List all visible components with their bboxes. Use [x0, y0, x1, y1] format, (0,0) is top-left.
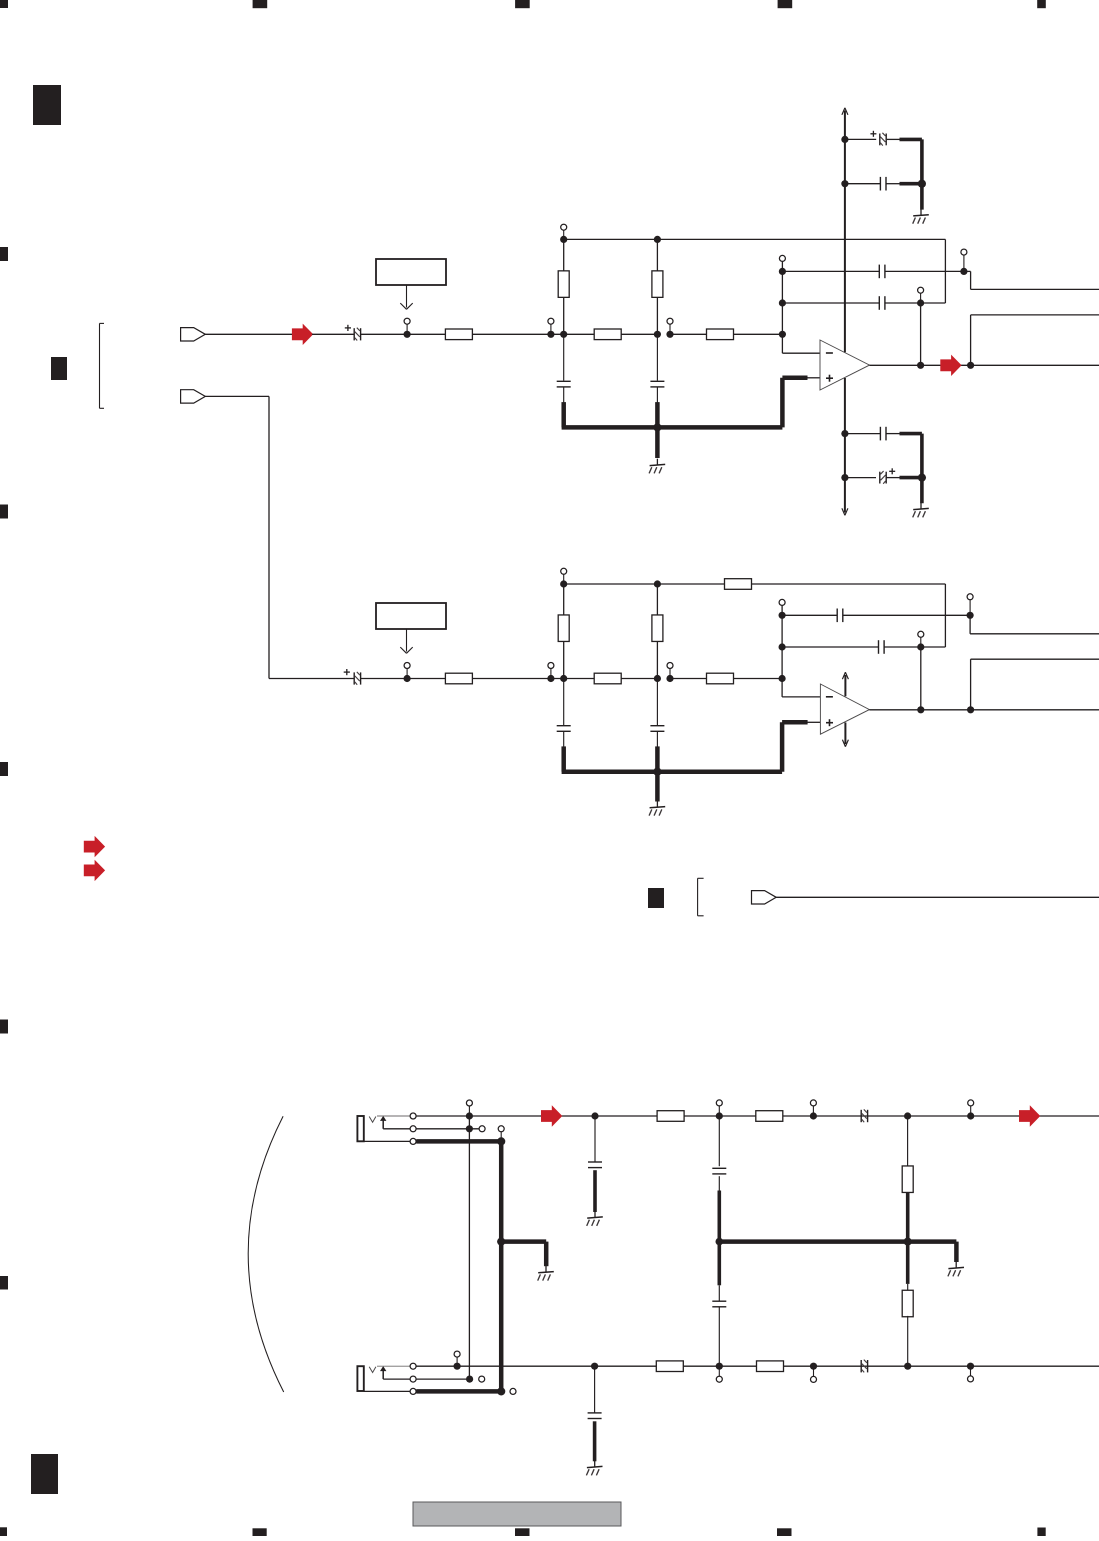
test point [970, 1106, 972, 1116]
op-amp IC1a [820, 340, 870, 390]
J1 ring wire (row 2) [383, 1128, 479, 1130]
capacitor C5 (supply) [845, 183, 881, 185]
thick branch to ground [501, 1239, 546, 1244]
capacitor C4 (supply, electrolytic) [845, 138, 876, 140]
feedback right drop wire stage 2 [944, 584, 946, 647]
node C column [781, 261, 783, 334]
wire R1 to node A [472, 333, 563, 335]
node D junction [547, 675, 554, 682]
registration mark bottom-1 [0, 1527, 7, 1536]
cable brace arc [248, 1116, 284, 1392]
capacitor C9 (feedback row 2) [782, 302, 879, 304]
capacitor C6 (supply) [845, 433, 881, 435]
capacitor C15 (feedback row 2) [782, 646, 878, 648]
junction [967, 1363, 974, 1370]
bead L2 (polarized) [860, 1360, 862, 1372]
resistor R12 [594, 673, 621, 684]
test point TP6 [963, 255, 965, 271]
test point TP3 [669, 324, 671, 334]
resistor R14 (shunt node D) [563, 584, 565, 679]
node F column [781, 605, 783, 678]
capacitor C21 (to ground) [594, 1116, 596, 1162]
connector CN1 pin 1 [181, 328, 206, 341]
test point TP7 [920, 293, 922, 303]
test point TP12 [550, 669, 552, 679]
wire arrow to C1 [312, 333, 354, 335]
bus junction stage 2 [653, 768, 661, 776]
capacitor C14 (feedback row 1) [782, 614, 837, 616]
registration mark top-1 [253, 0, 268, 8]
section index block [51, 357, 67, 380]
junction [810, 1112, 817, 1119]
ground G21 [594, 1211, 596, 1217]
junction [591, 1363, 598, 1370]
J2 ring wire (row 2) [383, 1378, 466, 1380]
signal-flow arrow (red) bottom-in [541, 1105, 562, 1126]
wire node B to node C (resistor R3) [670, 333, 782, 335]
wire CN2 to right edge [776, 896, 1099, 898]
junction [591, 1112, 598, 1119]
registration mark left-3 [0, 762, 8, 776]
output wire 4 (to right edge) [970, 659, 972, 710]
resistor R21 [657, 1111, 684, 1122]
resistor R3 [707, 329, 734, 340]
terminal circle [410, 1363, 416, 1369]
analog ground bus (thick) [717, 1239, 956, 1244]
wire node D to node E (resistor R12) [564, 678, 658, 680]
signal-flow arrow (red) bottom-out [1019, 1105, 1040, 1126]
node F row2 junction [779, 643, 786, 650]
ground G23 [955, 1262, 957, 1268]
signal-flow arrow (red) input 1 [292, 324, 313, 345]
resistor R11 [445, 673, 472, 684]
row1 output junction [960, 268, 967, 275]
test point TP1 [406, 324, 408, 334]
output wire 1 (to right edge) [964, 270, 971, 272]
V- rail stub (down) [844, 723, 846, 745]
rail junction 4 [841, 474, 848, 481]
spine junction [497, 1238, 505, 1246]
sleeve corner junction [497, 1137, 505, 1145]
ground G11 [655, 772, 660, 802]
V+ supply rail [844, 111, 846, 353]
op-amp output wire [870, 364, 1099, 366]
node F row1 junction [779, 612, 786, 619]
ground G3 [920, 503, 922, 509]
registration mark left-4 [0, 1020, 8, 1034]
test point [812, 1106, 814, 1116]
op-amp IC1b [820, 684, 869, 734]
bead L1 (polarized) [860, 1110, 862, 1122]
registration mark top-0 [0, 0, 8, 8]
resistor R15 (shunt node E) [656, 584, 658, 679]
ground G1 [655, 427, 660, 458]
registration mark left-2 [0, 505, 8, 519]
resistor R13 [707, 673, 734, 684]
section index block 2 [648, 888, 664, 908]
capacitor C12 (node D to bus) [563, 679, 565, 726]
terminal circle end [479, 1126, 485, 1132]
capacitor C2 (node A to bus) [563, 334, 565, 380]
label V (J1) [369, 1117, 376, 1123]
resistor R26 [757, 1361, 784, 1372]
test point TP16 [969, 600, 971, 616]
wire CN1-2 to C11 [205, 395, 269, 397]
capacitor C13 (node E to bus) [656, 679, 658, 726]
connector CN1 pin 2 [181, 390, 206, 403]
node B junction [654, 331, 661, 338]
node C junction [779, 331, 786, 338]
callout box (stage 2) [376, 603, 446, 629]
resistor R23 (to bus) [907, 1116, 909, 1166]
row1 output junction stage 2 [967, 612, 974, 619]
resistor R25 [656, 1361, 683, 1372]
test point TP2 [550, 324, 552, 334]
resistor R1 [445, 329, 472, 340]
rail junction 3 [841, 430, 848, 437]
J2 tip wire (row 1) [377, 1365, 413, 1367]
resistor R4 (shunt node A) [563, 239, 565, 334]
registration mark bottom-4 [777, 1528, 792, 1536]
feedback right drop wire [944, 239, 946, 303]
resistor R5 (shunt node B) [656, 239, 658, 334]
thick wire supply caps to ground 2 [900, 432, 922, 436]
wire CN1-1 to C1 [205, 333, 292, 335]
registration mark bottom-5 [1037, 1528, 1045, 1537]
registration mark top-2 [515, 0, 530, 8]
test point [718, 1366, 720, 1376]
registration mark left-1 [0, 247, 8, 261]
ground bus (thick) stage 2 [561, 746, 566, 771]
test point [456, 1357, 458, 1366]
page number block bottom-left [31, 1454, 58, 1494]
capacitor C3 (node B to bus) [656, 334, 658, 380]
ground G2 [920, 209, 922, 215]
test point TP13 [669, 669, 671, 679]
capacitor C7 (supply, electrolytic) [845, 477, 876, 479]
title block (grey) [413, 1502, 621, 1526]
feedback top wire stage 2 [564, 583, 724, 585]
long sense wire down [468, 1116, 470, 1379]
ground G24 [594, 1461, 596, 1467]
test point [718, 1106, 720, 1116]
thick sleeve wire [416, 1139, 501, 1144]
J1 tip wire (row 1) [377, 1115, 413, 1117]
test point TP17 [920, 637, 922, 647]
rail junction 1 [841, 136, 848, 143]
registration mark left-5 [0, 1276, 8, 1290]
test point TP15 [779, 599, 785, 605]
wire row2 to output line 2 [920, 647, 922, 710]
resistor R16 (feedback) [725, 579, 752, 590]
test point TP11 [406, 669, 408, 679]
terminal circle end [479, 1376, 485, 1382]
row2 junction stage 2 [917, 643, 924, 650]
signal-flow arrow (red) legend 1 [84, 836, 105, 857]
node F junction [779, 675, 786, 682]
capacitor C24 (to ground) [594, 1366, 596, 1413]
V+ rail stub (up) [844, 675, 846, 696]
sleeve junction 2 [497, 1387, 505, 1395]
J2 sleeve wire (row 3) [364, 1390, 413, 1392]
jack J2 body [357, 1366, 363, 1391]
thick ground spine [499, 1141, 504, 1391]
wire C1 to R1 [361, 333, 446, 335]
bracket (connector CN2) [697, 878, 699, 916]
registration mark bottom-2 [253, 1528, 267, 1536]
junction [466, 1112, 473, 1119]
output wire 2 (to right edge) [970, 315, 972, 365]
bus junction [653, 423, 661, 431]
junction [967, 1112, 974, 1119]
wire C11 to R11 [361, 678, 446, 680]
terminal circle [410, 1113, 416, 1119]
junction [810, 1363, 817, 1370]
test point TP4 [563, 230, 565, 239]
signal-flow arrow (red) legend 2 [84, 860, 105, 881]
wire row2 to output line [920, 303, 922, 365]
wire bus to op-amp + input [806, 377, 820, 379]
J1 sleeve wire (row 3) [364, 1140, 413, 1142]
test point [813, 1366, 815, 1376]
registration mark bottom-3 [515, 1528, 530, 1536]
capacitor C8 (feedback row 1) [782, 270, 879, 272]
wire node C to op-amp - input [781, 334, 783, 353]
test point [970, 1366, 972, 1376]
capacitor C22 (to bus) [718, 1116, 720, 1166]
test point [500, 1132, 502, 1142]
junction [466, 1125, 473, 1132]
page index block [33, 85, 61, 125]
capacitor C1 (polarized, input 1) [353, 328, 355, 340]
output junction 2 [967, 706, 974, 713]
bus right drop [954, 1242, 959, 1262]
input bracket [99, 323, 101, 408]
thick sleeve wire 2 [416, 1389, 501, 1394]
junction [904, 1112, 911, 1119]
terminal circle [410, 1126, 416, 1132]
test point TP14 [563, 574, 565, 584]
jack J1 body [357, 1116, 363, 1141]
terminal circle end 2 [510, 1388, 516, 1394]
junction [716, 1363, 723, 1370]
junction [716, 1112, 723, 1119]
label V (J2) [369, 1367, 376, 1373]
capacitor C23 (bus to row) [717, 1242, 721, 1286]
capacitor C11 (polarized, input 2) [353, 672, 355, 684]
rail junction 2 [841, 180, 848, 187]
registration mark top-3 [778, 0, 793, 8]
wire node A to node B (resistor R2) [564, 333, 658, 335]
test point [468, 1106, 470, 1116]
node A junction [547, 331, 554, 338]
node E junction [654, 675, 661, 682]
callout box (stage 1) [376, 259, 446, 285]
row2 junction [917, 299, 924, 306]
signal-flow arrow (red) output 1 [940, 355, 961, 376]
node C row1 junction [779, 268, 786, 275]
ground bus (thick) stage 1 [561, 402, 566, 427]
connector CN2 pin [752, 891, 777, 904]
voltage arrow (J1) [382, 1121, 384, 1129]
wire bus to op-amp + input 2 [806, 721, 820, 723]
wire node F to op-amp - input 2 [781, 679, 783, 697]
op-amp output wire 2 [869, 709, 1099, 711]
feedback top wire [564, 238, 946, 240]
ground G22 [545, 1266, 547, 1272]
node C row2 junction [779, 299, 786, 306]
registration mark top-4 [1037, 0, 1046, 8]
resistor R2 [594, 329, 621, 340]
output junction [967, 362, 974, 369]
resistor R22 [756, 1111, 783, 1122]
output wire 3 (to right edge) [969, 615, 971, 634]
wire R11 to node D [472, 678, 563, 680]
junction (sense wire end) [466, 1376, 473, 1383]
terminal circle [410, 1376, 416, 1382]
junction [454, 1363, 461, 1370]
wire node E to node F (resistor R13) [670, 678, 782, 680]
voltage arrow (J2) [382, 1371, 384, 1379]
thick wire supply caps to ground [900, 138, 922, 142]
resistor R24 (bus to row) [906, 1242, 910, 1284]
test point TP5 [779, 255, 785, 261]
junction [904, 1363, 911, 1370]
